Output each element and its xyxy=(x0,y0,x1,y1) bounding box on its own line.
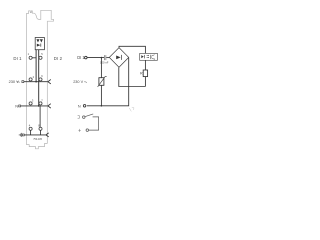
junction rail L / 230V row xyxy=(35,81,37,83)
module left edge xyxy=(25,13,27,144)
rail N (box to N row) xyxy=(38,50,40,106)
N lead square xyxy=(19,105,21,107)
earth symbol xyxy=(19,133,21,137)
terminal 7 xyxy=(39,102,42,105)
terminal 8 xyxy=(39,127,42,130)
bridge rectifier D1 xyxy=(109,48,128,68)
tick to terminal 5 xyxy=(38,57,40,59)
earth lead square xyxy=(22,134,24,136)
N row fork arrow xyxy=(48,104,51,108)
terminal 2 xyxy=(29,78,32,81)
terminal 1 (DI 1) xyxy=(29,56,32,59)
svg-text:230 V: 230 V xyxy=(73,80,83,84)
faint print artifact xyxy=(129,107,134,111)
earth row fork arrow xyxy=(46,133,49,137)
resistor R xyxy=(143,70,147,77)
function box U1 xyxy=(35,38,44,50)
230V lead square xyxy=(22,81,24,83)
optocoupler U2 xyxy=(140,53,158,60)
tick to terminal 1 xyxy=(32,57,36,59)
stub terminal 8 to earth line xyxy=(40,130,42,135)
earth row line xyxy=(24,134,46,136)
wire optocoupler to resistor xyxy=(144,60,146,70)
switch terminal circle xyxy=(83,116,86,119)
terminal 4 xyxy=(29,127,32,130)
terminal 5 (DI 2) xyxy=(39,56,42,59)
svg-text:N: N xyxy=(15,103,18,108)
wire varistor to N line xyxy=(100,85,102,106)
wire switch to corner xyxy=(89,117,99,130)
svg-text:N: N xyxy=(78,104,81,108)
lower lead mark xyxy=(78,129,80,132)
N row line xyxy=(21,105,48,107)
wire bridge top to optocoupler xyxy=(119,46,145,53)
capacitor C1 plates xyxy=(104,55,106,60)
N terminal circle xyxy=(83,105,86,108)
bottom wire to bridge minus xyxy=(119,67,146,86)
230V row line xyxy=(24,81,48,83)
status LED 1 xyxy=(36,39,39,42)
module bottom profile xyxy=(26,144,47,149)
wire DI to capacitor xyxy=(87,57,104,59)
svg-text:DI 2: DI 2 xyxy=(54,56,63,61)
module right edge xyxy=(46,21,48,143)
junction dot varistor branch xyxy=(101,57,103,59)
lower terminal circle xyxy=(86,129,89,132)
svg-text:R: R xyxy=(140,72,143,76)
230V row fork arrow xyxy=(48,80,51,84)
status LED 2 xyxy=(40,39,43,42)
wire resistor to bottom wire xyxy=(144,77,146,87)
svg-text:DI 1: DI 1 xyxy=(13,56,22,61)
rail L (box to 230V row) xyxy=(35,50,37,82)
terminal 3 xyxy=(29,102,32,105)
stub terminal 4 to earth line xyxy=(30,130,32,135)
varistor RV1 xyxy=(99,78,104,86)
module top profile xyxy=(26,10,53,21)
diode in function box xyxy=(37,44,41,47)
field switch contact symbol xyxy=(78,116,80,119)
DI input terminal circle xyxy=(85,56,88,59)
terminal 6 xyxy=(39,78,42,81)
wire junction to varistor xyxy=(100,58,102,78)
junction dot varistor / N line xyxy=(101,105,103,107)
junction rail N / N row xyxy=(38,105,40,107)
switch lever xyxy=(85,114,93,117)
wire capacitor to bridge xyxy=(106,57,109,59)
svg-text:750-405: 750-405 xyxy=(33,138,42,141)
wire bridge right to N line xyxy=(87,58,129,106)
wire N row to earth-row terminal xyxy=(39,106,41,127)
